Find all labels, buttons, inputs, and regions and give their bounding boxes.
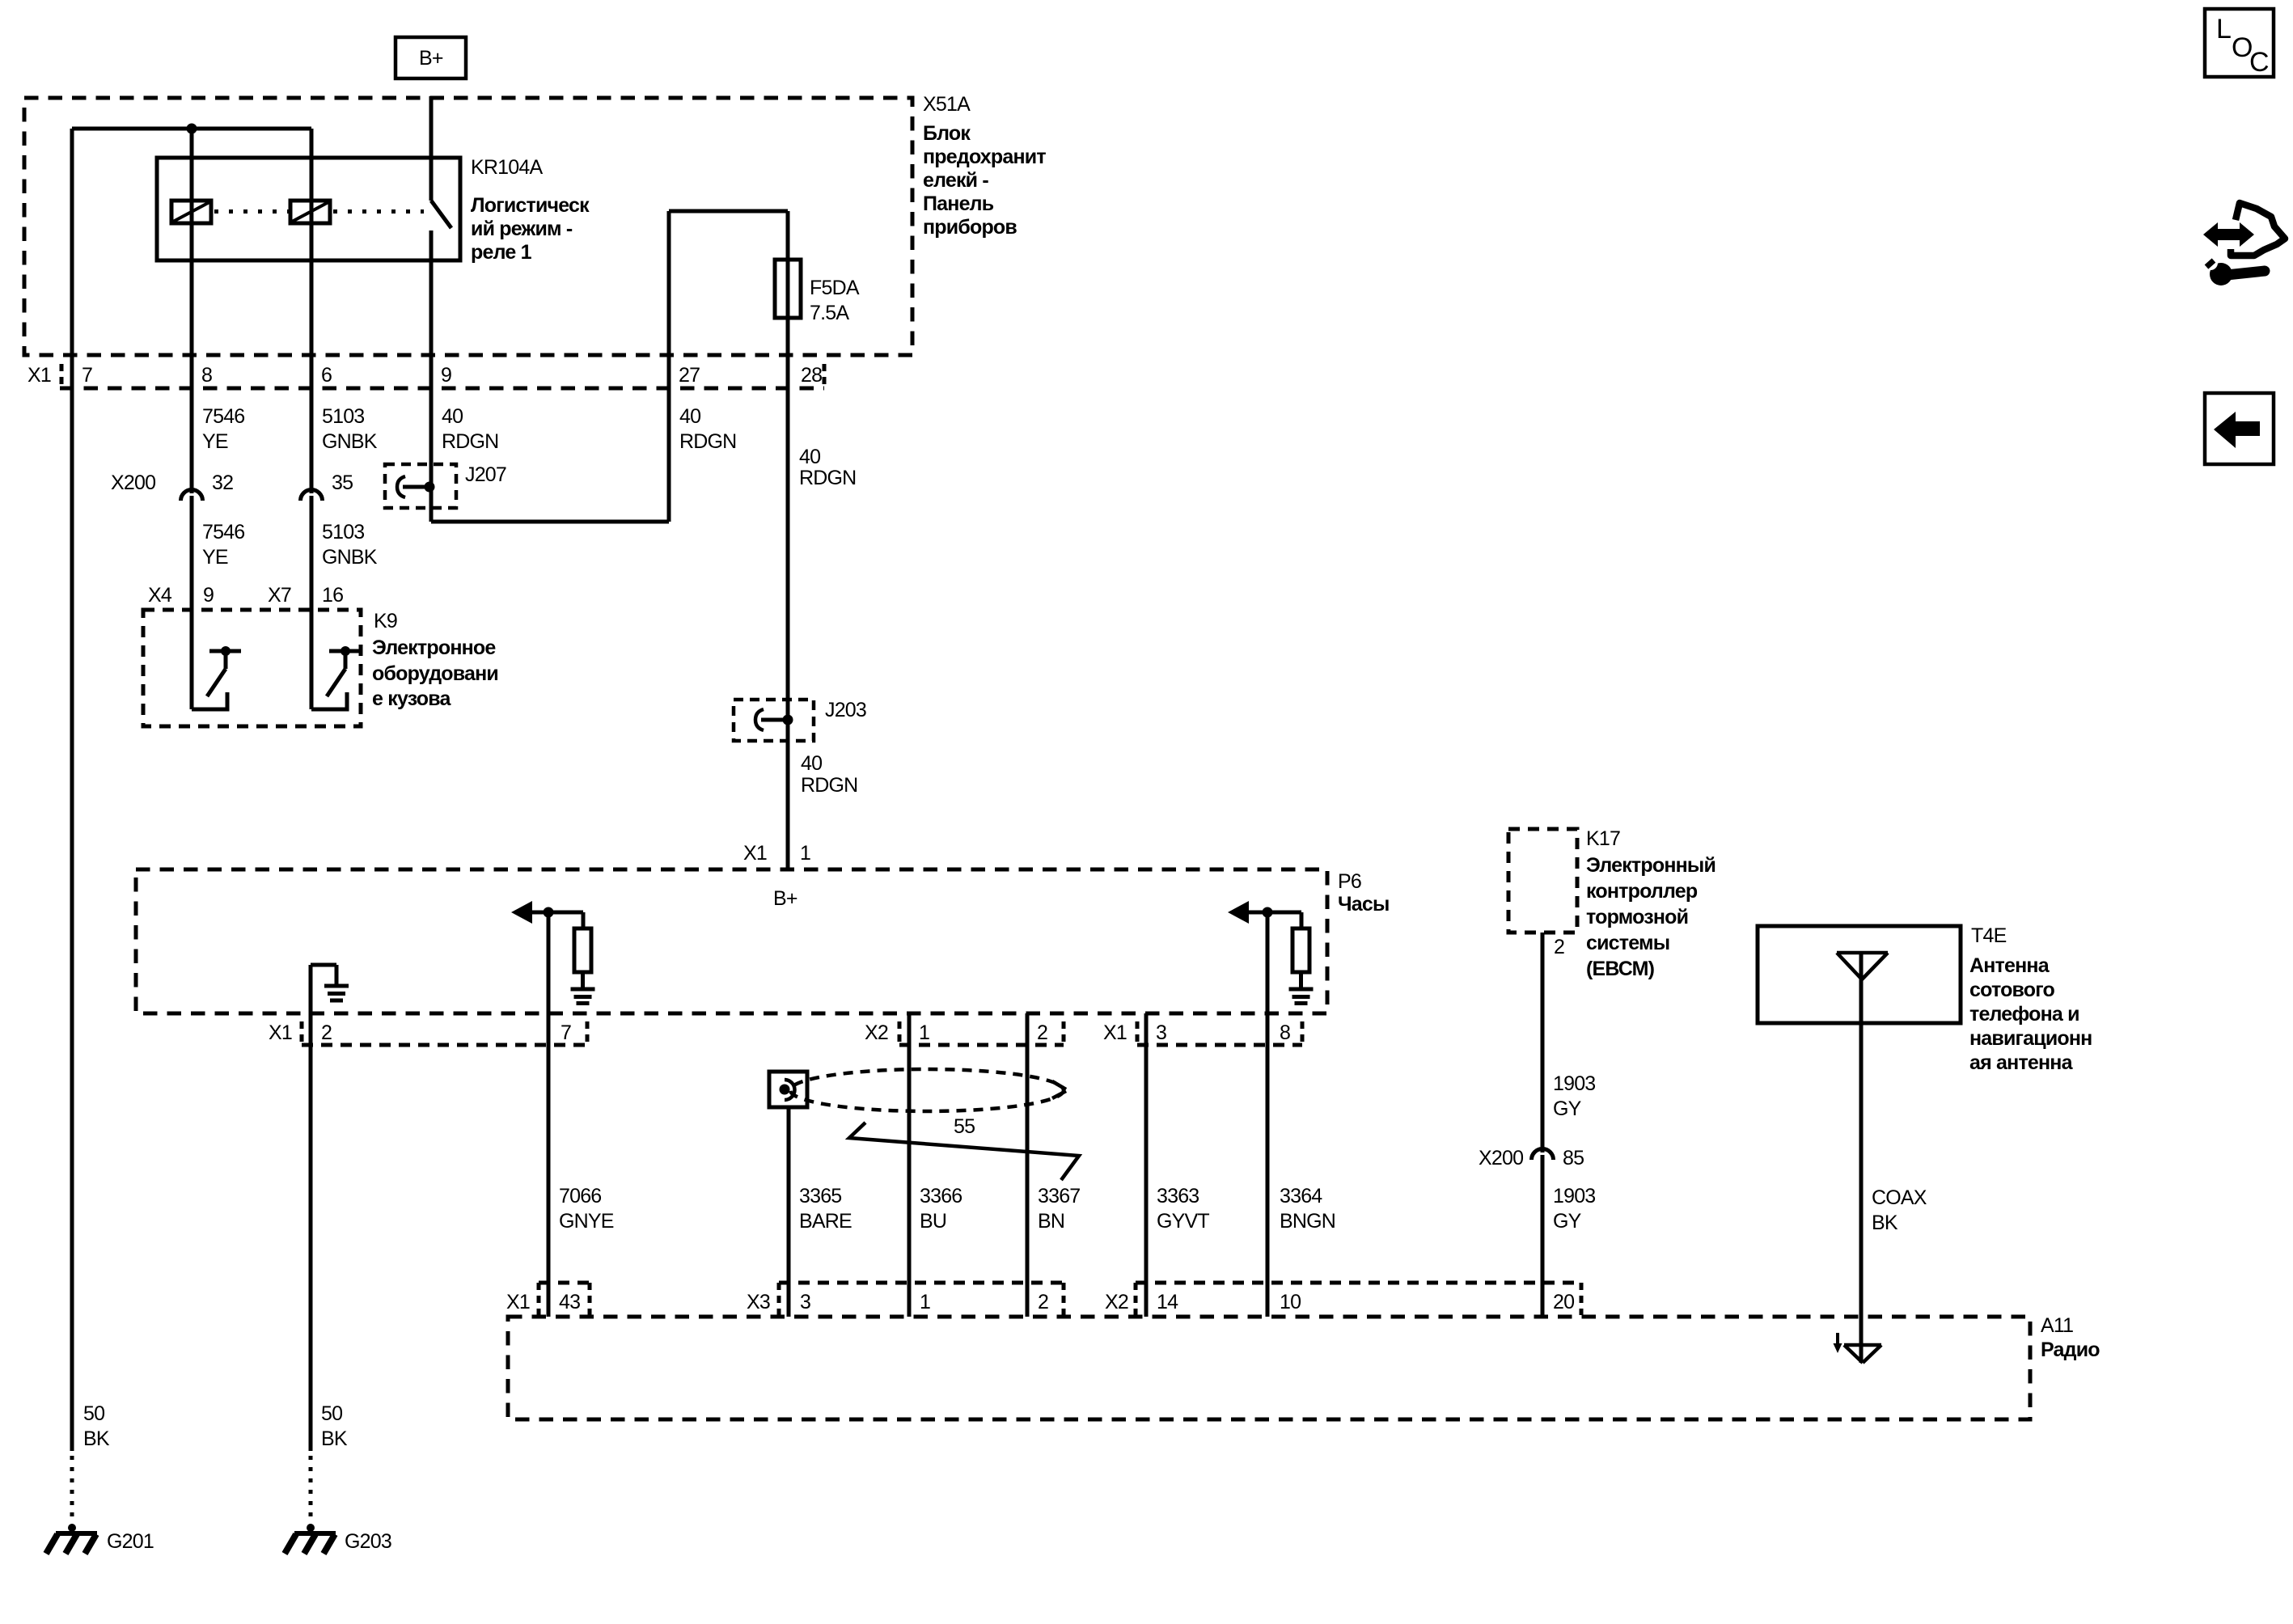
svg-text:X1: X1 xyxy=(27,364,51,387)
svg-text:X4: X4 xyxy=(148,584,172,607)
EBCM K17 dashed box xyxy=(1508,829,1577,933)
wire label 40 RDGN (pin 9) xyxy=(442,405,498,453)
svg-text:GYVT: GYVT xyxy=(1157,1210,1209,1233)
wire 7066 GNYE (pin 7 to radio 43) xyxy=(547,912,551,1317)
svg-text:ая антенна: ая антенна xyxy=(1969,1051,2074,1074)
relay switch blade xyxy=(431,201,451,228)
svg-text:X200: X200 xyxy=(111,472,155,494)
svg-text:1: 1 xyxy=(919,1021,929,1044)
svg-text:(ЕВСМ): (ЕВСМ) xyxy=(1586,958,1655,980)
wire label 40 RDGN (below J203) xyxy=(801,752,857,797)
fuse block X51A dashed box xyxy=(24,98,912,355)
svg-text:X1: X1 xyxy=(743,842,767,865)
svg-text:2: 2 xyxy=(1038,1291,1048,1313)
svg-text:T4E: T4E xyxy=(1971,924,2007,947)
svg-text:3: 3 xyxy=(800,1291,810,1313)
label K17 xyxy=(1586,827,1716,980)
svg-text:40: 40 xyxy=(442,405,463,428)
resistor in P6 (left) xyxy=(582,912,586,928)
svg-text:X200: X200 xyxy=(1479,1147,1523,1169)
clock P6 dashed box xyxy=(136,869,1327,1013)
svg-text:1: 1 xyxy=(800,842,810,865)
label T4E xyxy=(1969,924,2092,1074)
inline connector X200 pin 85 xyxy=(1532,1149,1554,1161)
junction dot coil branch xyxy=(187,124,197,134)
svg-text:16: 16 xyxy=(322,584,343,607)
twisted shielded cable ellipse 55 xyxy=(790,1069,1064,1111)
wire feed from pin 7 to coils xyxy=(72,127,311,131)
svg-text:тормозной: тормозной xyxy=(1586,906,1688,928)
label A11 xyxy=(2041,1314,2100,1361)
svg-text:2: 2 xyxy=(321,1021,332,1044)
icon vehicle data arrow xyxy=(2203,222,2254,247)
svg-text:приборов: приборов xyxy=(923,216,1017,239)
relay coil 2 xyxy=(290,201,330,223)
svg-text:6: 6 xyxy=(321,364,332,387)
svg-text:50: 50 xyxy=(321,1402,342,1425)
svg-text:K17: K17 xyxy=(1586,827,1620,850)
svg-text:J207: J207 xyxy=(465,463,506,486)
wire coil 2 (pin 6) xyxy=(310,129,314,493)
K9 pin labels X4 9 X7 16 xyxy=(148,584,343,607)
svg-text:YE: YE xyxy=(202,546,228,569)
svg-text:предохранит: предохранит xyxy=(923,146,1046,168)
svg-text:GNYE: GNYE xyxy=(559,1210,614,1233)
wire 3365 BARE (shield to radio 3) xyxy=(787,1107,791,1317)
svg-text:BN: BN xyxy=(1038,1210,1064,1233)
svg-text:P6: P6 xyxy=(1338,870,1361,893)
wire label 5103 GNBK (upper) xyxy=(322,405,378,453)
module K9 dashed box xyxy=(143,610,361,726)
svg-text:Радио: Радио xyxy=(2041,1339,2100,1361)
wire pin 9 below switch xyxy=(429,230,434,522)
ground symbol under right resistor xyxy=(1289,988,1314,992)
wire pin 28 through fuse xyxy=(786,211,790,869)
power B+ box xyxy=(396,37,466,78)
callout pointer 55 xyxy=(849,1123,1079,1180)
icon wrench xyxy=(2210,263,2232,285)
relay coil 1 xyxy=(171,201,211,223)
svg-text:7: 7 xyxy=(82,364,92,387)
svg-text:32: 32 xyxy=(212,472,233,494)
P6 pin row bracket X1 (3,8) xyxy=(1136,1021,1140,1045)
svg-text:реле 1: реле 1 xyxy=(471,241,532,264)
coax termination triangle xyxy=(1844,1343,1881,1347)
svg-text:Электронный: Электронный xyxy=(1586,854,1716,877)
svg-text:X3: X3 xyxy=(747,1291,770,1313)
svg-text:BARE: BARE xyxy=(799,1210,852,1233)
wire pin8 to K9 xyxy=(190,496,194,709)
svg-text:9: 9 xyxy=(441,364,451,387)
wire 1903 GY (K17 to radio 20) xyxy=(1541,933,1545,1152)
svg-text:Панель: Панель xyxy=(923,192,994,215)
svg-text:3364: 3364 xyxy=(1280,1185,1322,1207)
wire label 5103 GNBK (lower) xyxy=(322,521,378,569)
svg-text:RDGN: RDGN xyxy=(799,467,856,489)
svg-text:X2: X2 xyxy=(865,1021,888,1044)
svg-text:5103: 5103 xyxy=(322,405,364,428)
svg-text:43: 43 xyxy=(559,1291,580,1313)
wire B+ to relay switch xyxy=(429,96,434,201)
P6 pin row bracket X2 (1,2) xyxy=(898,1021,902,1045)
wire 3364 BNGN (pin 8 to radio 10) xyxy=(1266,912,1270,1317)
svg-text:3363: 3363 xyxy=(1157,1185,1199,1207)
label P6 xyxy=(1338,870,1390,916)
svg-text:оборудовани: оборудовани xyxy=(372,662,498,685)
P6 pin row bracket X1 (2,7) xyxy=(300,1021,304,1045)
svg-text:сотового: сотового xyxy=(1969,979,2055,1001)
svg-text:BK: BK xyxy=(1872,1212,1898,1234)
wire label 40 RDGN (pin 28) xyxy=(799,446,856,489)
svg-text:X7: X7 xyxy=(268,584,291,607)
svg-text:2: 2 xyxy=(1554,936,1564,958)
svg-text:B+: B+ xyxy=(419,47,443,70)
svg-text:8: 8 xyxy=(201,364,212,387)
relay KR104A box xyxy=(157,158,460,260)
svg-text:L: L xyxy=(2216,14,2231,44)
svg-text:J203: J203 xyxy=(825,699,866,721)
svg-text:3366: 3366 xyxy=(920,1185,962,1207)
svg-text:G203: G203 xyxy=(345,1530,391,1553)
radio bracket X3 pins 3 1 2 xyxy=(779,1281,1064,1285)
svg-text:14: 14 xyxy=(1157,1291,1178,1313)
resistor in P6 (right) xyxy=(1300,912,1304,928)
svg-text:системы: системы xyxy=(1586,932,1669,954)
svg-text:BK: BK xyxy=(321,1427,348,1450)
svg-text:RDGN: RDGN xyxy=(679,430,736,453)
svg-text:1903: 1903 xyxy=(1553,1185,1595,1207)
radio bracket X1 pin 43 xyxy=(539,1281,590,1285)
svg-text:3: 3 xyxy=(1156,1021,1166,1044)
svg-text:7546: 7546 xyxy=(202,405,244,428)
svg-text:GY: GY xyxy=(1553,1097,1582,1120)
svg-text:елекй -: елекй - xyxy=(923,169,988,192)
svg-text:Логистическ: Логистическ xyxy=(471,194,590,217)
svg-text:7.5A: 7.5A xyxy=(810,302,849,324)
svg-text:7066: 7066 xyxy=(559,1185,601,1207)
svg-text:9: 9 xyxy=(203,584,214,607)
ground G201 xyxy=(68,1524,76,1532)
svg-text:8: 8 xyxy=(1280,1021,1290,1044)
svg-text:RDGN: RDGN xyxy=(442,430,498,453)
connector row X1 of X51A xyxy=(60,387,824,391)
antenna symbol xyxy=(1837,951,1888,955)
svg-text:X1: X1 xyxy=(506,1291,530,1313)
svg-text:BU: BU xyxy=(920,1210,946,1233)
P6 right supply arrow xyxy=(1228,901,1249,924)
svg-text:G201: G201 xyxy=(107,1530,154,1553)
svg-text:2: 2 xyxy=(1037,1021,1047,1044)
svg-text:3365: 3365 xyxy=(799,1185,841,1207)
P6 case ground (pin 2) xyxy=(311,963,336,967)
svg-text:ий режим -: ий режим - xyxy=(471,218,573,240)
svg-text:20: 20 xyxy=(1553,1291,1574,1313)
svg-text:K9: K9 xyxy=(374,610,397,632)
svg-text:50: 50 xyxy=(83,1402,104,1425)
svg-text:5103: 5103 xyxy=(322,521,364,543)
wire pin 27 elbow to fuse xyxy=(669,209,788,214)
svg-text:телефона и: телефона и xyxy=(1969,1003,2079,1026)
svg-text:контроллер: контроллер xyxy=(1586,880,1698,903)
antenna T4E box xyxy=(1758,926,1961,1023)
ground symbol under left resistor xyxy=(571,988,595,992)
svg-text:27: 27 xyxy=(679,364,700,387)
label X51A xyxy=(923,93,1046,239)
svg-text:RDGN: RDGN xyxy=(801,774,857,797)
label KR104A xyxy=(471,156,590,264)
svg-text:BNGN: BNGN xyxy=(1280,1210,1335,1233)
svg-text:COAX: COAX xyxy=(1872,1186,1927,1209)
K9 switch 1 xyxy=(209,649,241,653)
ground G203 xyxy=(307,1524,315,1532)
radio bracket X2 pins 14 10 20 xyxy=(1136,1281,1581,1285)
wire coil 1 (pin 8) xyxy=(190,129,194,493)
svg-text:1903: 1903 xyxy=(1553,1072,1595,1095)
svg-text:A11: A11 xyxy=(2041,1314,2073,1337)
svg-text:BK: BK xyxy=(83,1427,110,1450)
wire 3367 BN (P6 2 to radio 2) xyxy=(1026,1013,1030,1317)
label K9 xyxy=(372,610,498,710)
wire label 40 RDGN (pin 27) xyxy=(679,405,736,453)
wire J207 to pin 27 link xyxy=(431,520,669,524)
wire pin6 to K9 xyxy=(310,496,314,709)
splice J207 xyxy=(385,464,456,508)
wire 50 BK to G201 xyxy=(70,355,74,1451)
svg-text:F5DA: F5DA xyxy=(810,277,860,299)
inline connector X200 pin 35 xyxy=(301,490,323,501)
svg-text:55: 55 xyxy=(954,1115,975,1138)
svg-text:Электронное: Электронное xyxy=(372,636,496,659)
P6 left supply arrow xyxy=(511,901,532,924)
svg-text:Антенна: Антенна xyxy=(1969,954,2050,977)
svg-text:KR104A: KR104A xyxy=(471,156,543,179)
wire 3366 BU (P6 1 to radio 1) xyxy=(907,1013,912,1317)
svg-text:B+: B+ xyxy=(773,887,797,910)
svg-text:Блок: Блок xyxy=(923,122,971,145)
wire COAX BK xyxy=(1859,953,1864,1363)
svg-text:1: 1 xyxy=(920,1291,930,1313)
svg-text:40: 40 xyxy=(799,446,820,468)
wire label 7546 YE (upper) xyxy=(202,405,244,453)
svg-text:GY: GY xyxy=(1553,1210,1582,1233)
fuse F5DA xyxy=(775,260,801,318)
node X1 pin 1 (P6 top) xyxy=(743,842,810,865)
wire label 7546 YE (lower) xyxy=(202,521,244,569)
svg-text:YE: YE xyxy=(202,430,228,453)
svg-text:X2: X2 xyxy=(1105,1291,1128,1313)
small ground arrow at coax end xyxy=(1836,1333,1839,1345)
wire 3363 GYVT (P6 3 to radio 14) xyxy=(1144,1013,1149,1317)
svg-text:X1: X1 xyxy=(269,1021,292,1044)
svg-text:GNBK: GNBK xyxy=(322,430,378,453)
icon vehicle outline xyxy=(2231,203,2285,256)
svg-text:X1: X1 xyxy=(1103,1021,1127,1044)
svg-text:навигационн: навигационн xyxy=(1969,1027,2092,1050)
svg-text:GNBK: GNBK xyxy=(322,546,378,569)
svg-text:40: 40 xyxy=(801,752,822,775)
icon LOC box xyxy=(2205,9,2274,77)
splice J203 xyxy=(734,700,814,741)
inline connector X200 pin 32 xyxy=(181,490,203,501)
svg-text:7546: 7546 xyxy=(202,521,244,543)
K9 switch 2 xyxy=(329,649,361,653)
svg-text:Часы: Часы xyxy=(1338,893,1390,916)
radio A11 dashed box xyxy=(508,1317,2030,1419)
svg-text:40: 40 xyxy=(679,405,700,428)
svg-text:7: 7 xyxy=(561,1021,571,1044)
svg-text:3367: 3367 xyxy=(1038,1185,1080,1207)
svg-text:е кузова: е кузова xyxy=(372,687,451,710)
svg-text:10: 10 xyxy=(1280,1291,1301,1313)
svg-text:C: C xyxy=(2249,47,2269,78)
svg-text:35: 35 xyxy=(332,472,353,494)
wire 50 BK to G203 xyxy=(309,965,313,1451)
icon back arrow box xyxy=(2205,393,2274,464)
shield drain connector xyxy=(769,1072,807,1107)
svg-text:28: 28 xyxy=(801,364,822,387)
relay dotted link xyxy=(214,209,289,214)
svg-text:X51A: X51A xyxy=(923,93,971,116)
svg-text:85: 85 xyxy=(1563,1147,1584,1169)
